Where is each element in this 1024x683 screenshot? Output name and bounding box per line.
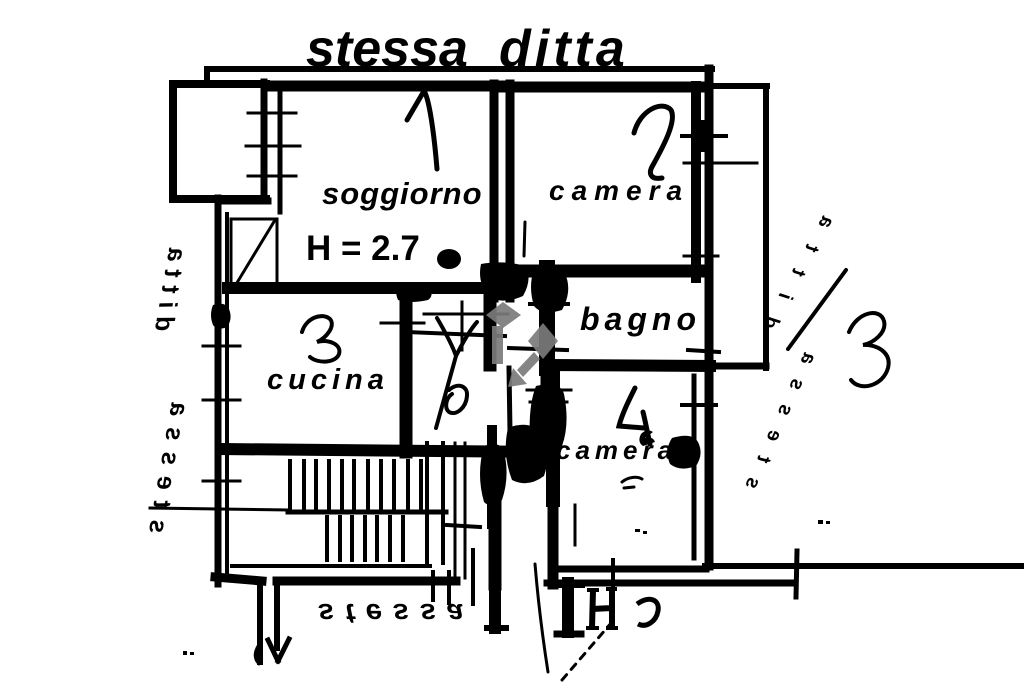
tick cucina door xyxy=(381,322,424,325)
balcony right edge xyxy=(763,86,769,368)
short line above channel xyxy=(447,525,480,527)
wall camera2 bottom xyxy=(503,265,702,278)
corridor tick y349 xyxy=(509,348,567,350)
long tick left y508 xyxy=(150,508,288,510)
wall soggiorno/cucina xyxy=(228,282,503,294)
right underline diagonal xyxy=(788,270,846,349)
small marks camera4 xyxy=(622,477,642,488)
camera4 interior line xyxy=(574,505,577,545)
blob left wall mid joint xyxy=(211,304,231,329)
window tick right y135 xyxy=(682,134,726,138)
wall soggiorno top xyxy=(268,81,500,92)
scribble loop under Y xyxy=(446,386,467,413)
stairs upper treads xyxy=(290,461,421,511)
corridor right wall mid blob xyxy=(541,273,555,313)
arrowhead down xyxy=(268,639,289,661)
svg-text:stessa: stessa xyxy=(306,20,468,78)
window ticks divider xyxy=(248,112,296,115)
scribble Y xyxy=(436,318,477,428)
number 3 right xyxy=(849,313,889,386)
wire top outer wall line xyxy=(207,69,712,82)
watermark diamond right xyxy=(528,323,558,359)
long line right xyxy=(705,563,1024,569)
svg-text:camera: camera xyxy=(549,175,689,206)
dot pair right xyxy=(818,520,823,524)
svg-text:soggiorno: soggiorno xyxy=(322,176,483,211)
watermark shaft below diamond xyxy=(492,326,503,364)
corridor left wall upper xyxy=(484,288,497,365)
channel right line xyxy=(548,440,559,584)
right diagonal ditta xyxy=(758,194,849,333)
wall bottom mid xyxy=(277,577,456,586)
wall outer right xyxy=(705,69,714,566)
balcony right top edge xyxy=(712,83,767,89)
small tick camera2 interior xyxy=(524,222,525,256)
svg-text:camera: camera xyxy=(556,435,677,465)
flourish near 4 xyxy=(639,430,655,446)
bottom reversed c xyxy=(637,599,658,625)
window tick left y480 xyxy=(203,480,240,483)
svg-text:H = 2.7: H = 2.7 xyxy=(306,229,420,268)
wall bagno left xyxy=(539,268,555,368)
stairs lower treads xyxy=(327,517,403,560)
watermark arrows grey xyxy=(486,302,558,387)
blob H value xyxy=(437,249,461,269)
blob camera2 right wall xyxy=(692,120,713,152)
wall bottom left xyxy=(215,577,262,581)
svg-text:bagno: bagno xyxy=(580,301,701,337)
blob right wall lower xyxy=(667,436,700,469)
wall soggiorno right xyxy=(490,84,499,298)
wall divider balcony/soggiorno xyxy=(261,82,268,200)
wall step left xyxy=(218,198,268,205)
dot pair mid xyxy=(635,529,640,532)
corridor thin verticals right of stairs xyxy=(454,443,457,578)
svg-text:stessa: stessa xyxy=(318,597,474,629)
wall camera4 bottom lower line xyxy=(547,580,795,587)
window ticks right lower xyxy=(688,350,719,352)
stairs rail xyxy=(288,510,446,515)
dot pair bottom left xyxy=(183,651,187,655)
wall camera4 bottom upper line xyxy=(558,566,706,573)
corridor right wall line mid xyxy=(541,310,550,408)
window tick right y255 xyxy=(684,255,718,258)
door channel down right line xyxy=(274,584,280,648)
tick bagno door xyxy=(530,302,568,306)
wall main left xyxy=(215,198,222,584)
svg-text:ditta: ditta xyxy=(499,20,629,78)
door channel down left line xyxy=(257,584,263,662)
tick x613 bottom wall xyxy=(611,560,615,594)
wall camera4 left xyxy=(546,368,560,500)
left text stessa xyxy=(143,389,196,536)
handwritten labels xyxy=(143,20,849,629)
wall cucina bottom xyxy=(221,449,545,452)
watermark arrow down-left shaft xyxy=(517,352,540,377)
wall bagno bottom xyxy=(548,365,710,366)
junction blobs xyxy=(183,120,830,655)
corridor left wall lower xyxy=(487,430,497,524)
wall camera2 top xyxy=(500,82,700,93)
watermark diamond upper-left xyxy=(486,302,521,328)
wall camera2 left xyxy=(506,84,515,298)
number 2 camera xyxy=(634,106,672,178)
right diagonal stessa xyxy=(740,334,827,493)
closet diagonal xyxy=(232,220,275,291)
window tick left y345 xyxy=(203,345,240,348)
blob corridor left lower xyxy=(480,444,507,506)
T mark right below wall xyxy=(562,583,574,632)
corridor left streak lower xyxy=(509,368,510,432)
watermark arrowhead down-left xyxy=(508,368,527,387)
balcony top-left xyxy=(173,84,266,199)
bottom H xyxy=(592,589,612,628)
arrow hook xyxy=(256,644,260,663)
bottom inner wall line xyxy=(232,564,430,568)
number 1 soggiorno xyxy=(407,91,437,169)
tick squiggle x795 xyxy=(796,551,797,597)
blob cucina junction xyxy=(396,283,432,302)
balcony right bottom xyxy=(703,363,766,370)
window tick right y162 xyxy=(684,162,757,165)
blob channel mid xyxy=(506,425,548,483)
ticks camera4 left xyxy=(527,389,571,392)
blob corridor big mid xyxy=(530,384,567,466)
window tick left y400 xyxy=(203,399,240,402)
diagonal stroke bottom center xyxy=(535,564,548,672)
vertical tick x472 bottom xyxy=(471,550,475,604)
wall cucina right xyxy=(400,291,413,452)
bottom flipped stessa xyxy=(318,597,474,629)
stairs stringer right xyxy=(425,443,429,563)
svg-text:cucina: cucina xyxy=(267,364,389,396)
number 4 camera4 xyxy=(619,388,650,444)
dashed diagonal bottom xyxy=(562,622,612,680)
blob corridor top left xyxy=(480,262,529,300)
T mark left below wall xyxy=(489,583,501,628)
closet square xyxy=(231,219,277,292)
corridor ticks xyxy=(424,313,508,316)
number 3 cucina xyxy=(302,316,339,362)
wall camera2 right inner xyxy=(691,86,701,278)
left text ditta xyxy=(149,238,193,334)
door line cucina xyxy=(461,302,464,350)
channel left line xyxy=(489,500,502,584)
blob corridor top right xyxy=(531,269,568,312)
ticks below bottom wall xyxy=(431,572,435,600)
